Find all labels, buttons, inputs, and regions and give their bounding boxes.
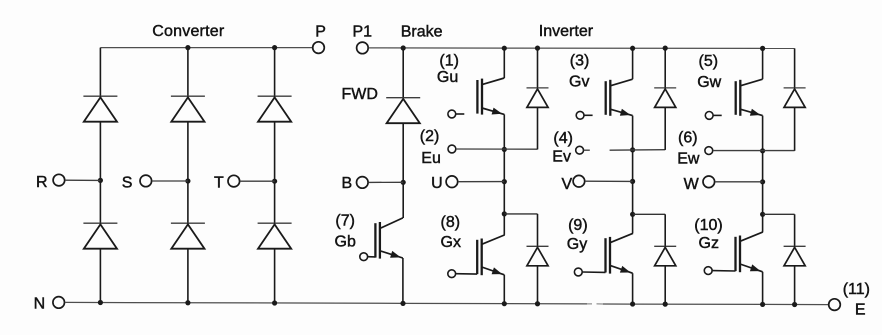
- svg-text:(6): (6): [678, 129, 698, 146]
- svg-text:(7): (7): [335, 213, 355, 230]
- svg-text:Eu: Eu: [421, 150, 441, 167]
- svg-text:Converter: Converter: [152, 23, 225, 40]
- svg-text:R: R: [36, 174, 48, 191]
- svg-text:B: B: [342, 175, 353, 192]
- svg-text:(9): (9): [568, 217, 588, 234]
- svg-text:Ew: Ew: [677, 150, 700, 167]
- svg-text:U: U: [431, 175, 443, 192]
- svg-text:Brake: Brake: [401, 23, 443, 40]
- svg-text:(8): (8): [441, 214, 461, 231]
- svg-text:(3): (3): [570, 53, 590, 70]
- svg-text:Gu: Gu: [437, 69, 458, 86]
- svg-text:V: V: [562, 176, 573, 193]
- svg-text:FWD: FWD: [342, 86, 378, 103]
- svg-text:N: N: [34, 296, 46, 313]
- svg-text:(2): (2): [420, 128, 440, 145]
- svg-text:T: T: [214, 175, 224, 192]
- svg-text:Gy: Gy: [567, 236, 587, 253]
- svg-text:(1): (1): [439, 52, 459, 69]
- svg-text:E: E: [855, 301, 866, 318]
- svg-text:S: S: [122, 174, 133, 191]
- svg-text:(11): (11): [843, 281, 870, 298]
- svg-text:P1: P1: [353, 23, 373, 40]
- svg-text:W: W: [684, 176, 700, 193]
- svg-text:P: P: [315, 23, 326, 40]
- svg-text:(5): (5): [699, 53, 719, 70]
- svg-text:Gb: Gb: [335, 233, 356, 250]
- svg-text:Gx: Gx: [441, 234, 461, 251]
- svg-text:(4): (4): [553, 130, 573, 147]
- svg-text:Gz: Gz: [699, 235, 719, 252]
- svg-text:Gw: Gw: [697, 74, 721, 91]
- svg-text:Inverter: Inverter: [539, 23, 594, 40]
- svg-text:Gv: Gv: [569, 73, 589, 90]
- svg-text:Ev: Ev: [552, 148, 571, 165]
- svg-text:(10): (10): [694, 217, 722, 234]
